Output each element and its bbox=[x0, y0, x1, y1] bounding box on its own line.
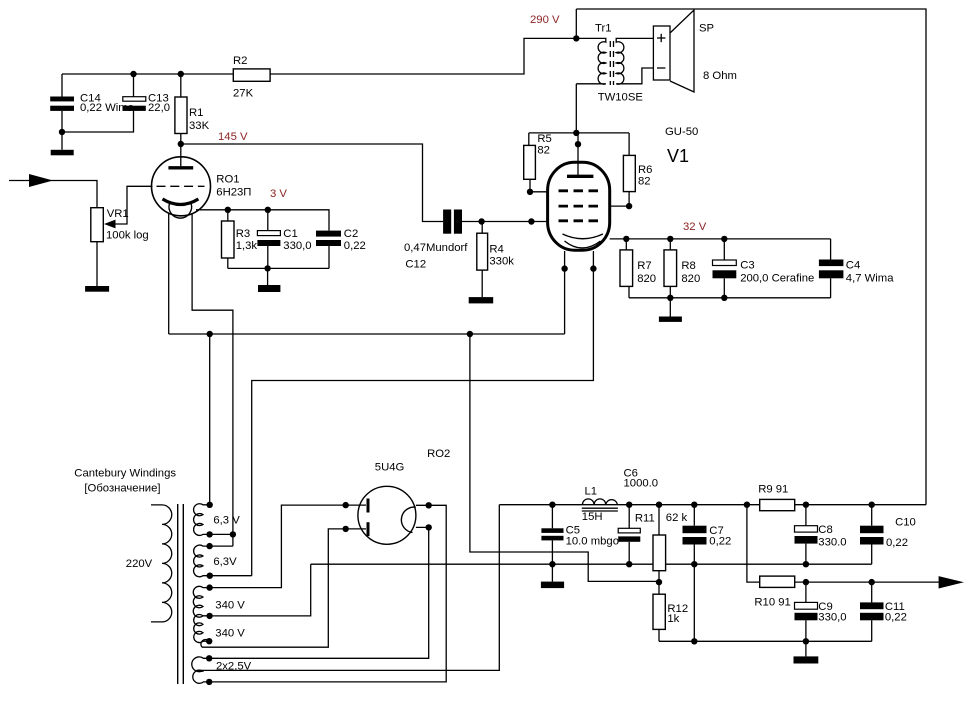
wire R8 top lead bbox=[669, 239, 671, 250]
svg-text:R3: R3 bbox=[236, 228, 250, 240]
svg-text:0,22 Wima: 0,22 Wima bbox=[80, 102, 135, 114]
node winding tap2 bbox=[206, 531, 212, 537]
wire bottom ground rail bbox=[659, 640, 872, 642]
svg-text:C2: C2 bbox=[344, 228, 358, 240]
svg-text:R11: R11 bbox=[635, 513, 655, 525]
svg-text:L1: L1 bbox=[585, 486, 598, 498]
wire R2 right to 290V node (up and over) bbox=[270, 38, 576, 74]
svg-text:820: 820 bbox=[681, 273, 700, 285]
transformer Tr1 core bbox=[610, 41, 613, 85]
node GU-50 cathode pin left bbox=[561, 265, 567, 271]
node R6 bottom bbox=[626, 203, 632, 209]
capacitor C5 bbox=[541, 528, 563, 540]
node winding tap7 bbox=[206, 638, 212, 644]
wire R5 bottom to GU-50 g2 bbox=[530, 179, 548, 192]
wire ground stem below C1 bbox=[267, 268, 269, 285]
wire RO1 cathode row to R3 C1 C2 bbox=[196, 210, 329, 231]
ground below R8 bbox=[659, 317, 682, 322]
node C9 bottom ground bbox=[803, 638, 809, 644]
node R11 R12 junction bbox=[656, 579, 662, 585]
svg-text:8 Ohm: 8 Ohm bbox=[703, 70, 737, 82]
wire R6 top lead bbox=[628, 133, 630, 156]
capacitor C4 bbox=[819, 260, 844, 279]
wire C11 bottom lead bbox=[871, 620, 873, 641]
resistor R12 bbox=[653, 594, 665, 629]
svg-text:C1: C1 bbox=[283, 228, 297, 240]
node C3 bottom bbox=[721, 295, 727, 301]
svg-text:0,22: 0,22 bbox=[886, 537, 908, 549]
wire C3 top lead bbox=[723, 239, 725, 260]
svg-text:Cantebury Windings: Cantebury Windings bbox=[74, 468, 176, 480]
node R11 top bbox=[656, 502, 662, 508]
node GU-50 anode lead bbox=[575, 141, 581, 147]
svg-text:R9 91: R9 91 bbox=[758, 484, 788, 496]
wire 6,3V tap4 to GU-50 heater return bbox=[210, 575, 252, 577]
wire ground stem below R8 bbox=[669, 298, 671, 317]
wire 2x2,5V bottom tap to 5U4G filament pin2 bbox=[209, 505, 446, 682]
pentode GU-50 envelope bbox=[548, 162, 610, 250]
wire C5 bottom lead bbox=[551, 540, 553, 564]
wire input line bbox=[9, 181, 97, 208]
wire RO1 heater lead left bbox=[168, 213, 170, 334]
wire C6 top lead bbox=[628, 505, 630, 529]
wire top bus to right edge and down to B+ rail bbox=[576, 9, 926, 505]
node winding tap5 bbox=[206, 584, 212, 590]
RO1 cathode arc bbox=[163, 199, 199, 205]
svg-text:2x2,5V: 2x2,5V bbox=[216, 660, 252, 672]
svg-text:62 k: 62 k bbox=[666, 512, 688, 524]
power transformer core bbox=[178, 504, 184, 684]
svg-text:6Н23П: 6Н23П bbox=[216, 187, 251, 199]
wire R3 top lead bbox=[227, 210, 229, 221]
ground below C5 bbox=[541, 582, 564, 589]
capacitor C3 bbox=[713, 260, 737, 278]
svg-text:RO2: RO2 bbox=[427, 448, 450, 460]
wire heater rail to R11 R12 junction bbox=[470, 334, 659, 581]
resistor R8 bbox=[664, 250, 677, 287]
GU-50 grid2 dashed bbox=[559, 189, 599, 192]
wire R3 bottom lead bbox=[227, 258, 229, 268]
RO1 grid dashed line bbox=[157, 185, 205, 187]
wire heater rail bbox=[169, 333, 565, 335]
5U4G plate2 bbox=[367, 522, 370, 536]
svg-text:3 V: 3 V bbox=[270, 188, 287, 200]
inductor L1 bbox=[582, 499, 618, 511]
GU-50 grid1 dashed bbox=[559, 219, 599, 222]
resistor R1 bbox=[175, 97, 187, 134]
wire C11 top lead bbox=[871, 582, 873, 602]
svg-text:330k: 330k bbox=[489, 256, 514, 268]
wire C10 top lead bbox=[871, 505, 873, 526]
node C1 bottom ground bbox=[264, 265, 270, 271]
wire 2x2,5V top tap to 5U4G filament pin1 bbox=[209, 527, 429, 658]
svg-text:145 V: 145 V bbox=[218, 131, 248, 143]
wire 290V node up to top bus bbox=[575, 9, 577, 38]
wire 6,3V tap3 line bbox=[210, 545, 233, 547]
input arrow bbox=[29, 174, 53, 187]
node winding center tap bbox=[206, 613, 212, 619]
wire C14 bottom lead to ground bbox=[61, 111, 63, 150]
speaker minus sign bbox=[657, 67, 665, 69]
wire R4 top lead bbox=[481, 222, 483, 234]
node R5 bottom bbox=[527, 189, 533, 195]
node C8 top bbox=[803, 502, 809, 508]
secondary winding 6,3V no2 bbox=[194, 545, 210, 577]
wire GU-50 cathode lead left to heater rail bbox=[564, 251, 566, 334]
svg-text:0,22: 0,22 bbox=[709, 536, 731, 548]
node heater rail elevation tap bbox=[467, 331, 473, 337]
potentiometer VR1 body bbox=[91, 208, 104, 242]
svg-text:6,3V: 6,3V bbox=[213, 556, 237, 568]
svg-text:220V: 220V bbox=[126, 558, 153, 570]
svg-text:C10: C10 bbox=[895, 517, 916, 529]
wire ground stem below C9 bbox=[805, 641, 807, 656]
power transformer primary winding bbox=[151, 505, 172, 622]
resistor R3 bbox=[222, 221, 235, 258]
svg-text:0,22: 0,22 bbox=[885, 612, 907, 624]
RO1 anode plate bbox=[168, 166, 193, 169]
wire C2 bottom lead bbox=[328, 246, 330, 268]
node C7 bottom rail bbox=[691, 638, 697, 644]
resistor R9 bbox=[760, 499, 795, 510]
wire R7 top lead bbox=[625, 239, 627, 250]
wire top rail from C14 top to R2 left bbox=[62, 73, 233, 75]
svg-text:RO1: RO1 bbox=[216, 173, 239, 185]
node C8 bottom bbox=[803, 561, 809, 567]
secondary winding 6,3V no1 bbox=[194, 504, 210, 536]
transformer Tr1 secondary winding bbox=[616, 38, 653, 84]
wire 32V rail bbox=[610, 238, 831, 240]
wire heater rail tap down to 6,3V winding top bbox=[209, 334, 211, 505]
capacitor C6 bbox=[618, 528, 640, 542]
GU-50 grid3 dashed bbox=[559, 205, 599, 208]
node R9 R10 left bbox=[744, 502, 750, 508]
svg-text:0,47Mundorf: 0,47Mundorf bbox=[404, 242, 468, 254]
svg-text:VR1: VR1 bbox=[107, 208, 129, 220]
resistor R4 bbox=[477, 233, 488, 270]
wire RO1 heater lead right with jog bbox=[192, 213, 233, 546]
node C6 bottom bbox=[626, 561, 632, 567]
wire R4 bottom lead to ground bbox=[481, 270, 483, 297]
svg-text:GU-50: GU-50 bbox=[665, 126, 698, 138]
capacitor C9 bbox=[795, 602, 818, 620]
wire 340V tap5 to 5U4G plate1 bbox=[210, 505, 366, 587]
wire C14 top lead bbox=[61, 74, 63, 97]
node 145V bbox=[178, 141, 184, 147]
capacitor C12 bbox=[443, 210, 462, 234]
resistor R10 bbox=[760, 576, 795, 587]
node C7 bottom bbox=[691, 561, 697, 567]
wire R12 bottom lead bbox=[658, 629, 660, 641]
ground below C9 bbox=[794, 656, 819, 663]
wire R8 bottom lead bbox=[669, 286, 671, 297]
svg-text:5U4G: 5U4G bbox=[375, 462, 405, 474]
wire Tr1 primary bottom to GU-50 anode node bbox=[575, 84, 577, 133]
5U4G filament arc bbox=[401, 507, 415, 532]
wire C1 top lead bbox=[267, 210, 269, 231]
svg-text:290 V: 290 V bbox=[530, 14, 560, 26]
wire VR1 bottom lead to ground bbox=[96, 242, 98, 286]
node winding tap3 bbox=[206, 543, 212, 549]
node winding tap9 bbox=[206, 679, 212, 685]
node R8 bottom ground bbox=[667, 295, 673, 301]
wire 340V tap7 to 5U4G plate2 bbox=[202, 529, 366, 647]
node 5U4G plate1 lead bbox=[343, 502, 349, 508]
wire ground rail bbox=[311, 563, 872, 565]
wire ground stem below C5 bbox=[551, 564, 553, 581]
svg-text:32 V: 32 V bbox=[683, 221, 707, 233]
svg-text:10.0 mbgo: 10.0 mbgo bbox=[566, 536, 619, 548]
wire C8 top lead bbox=[805, 505, 807, 526]
svg-text:1000.0: 1000.0 bbox=[624, 478, 659, 490]
wire C9 bottom lead bbox=[805, 620, 807, 641]
wire C6 bottom lead bbox=[628, 542, 630, 564]
wire GU-50 screen rail R5 R6 bbox=[529, 132, 629, 134]
wire GU-50 anode lead bbox=[577, 133, 579, 175]
resistor R2 bbox=[233, 69, 270, 81]
wire R11 bottom lead bbox=[658, 571, 660, 582]
node C14 C13 bottom bbox=[59, 129, 65, 135]
svg-text:R10 91: R10 91 bbox=[754, 596, 790, 608]
node C13 top bbox=[130, 71, 136, 77]
node GU-50 cathode pin right bbox=[590, 265, 596, 271]
wire GU-50 cathode lead right down to heater return bbox=[252, 251, 594, 576]
wire R7 bottom lead bbox=[628, 286, 630, 297]
svg-text:V1: V1 bbox=[667, 146, 689, 166]
svg-text:R1: R1 bbox=[189, 107, 203, 119]
ground below VR1 bbox=[85, 286, 109, 292]
wire B+ rail bbox=[499, 504, 926, 506]
resistor R7 bbox=[620, 250, 633, 287]
ground below R4 bbox=[469, 297, 494, 303]
svg-text:TW10SE: TW10SE bbox=[598, 92, 644, 104]
secondary winding 340V no1 bbox=[193, 586, 209, 617]
wire R12 top lead bbox=[658, 582, 660, 594]
wire C4 top lead bbox=[830, 239, 832, 260]
wire C3 bottom lead bbox=[723, 278, 725, 298]
wire C7 top lead bbox=[693, 505, 695, 526]
node heater rail tap1 bbox=[207, 331, 213, 337]
capacitor C8 bbox=[795, 526, 818, 544]
wire C10 bottom lead bbox=[871, 545, 873, 565]
svg-text:1k: 1k bbox=[667, 613, 679, 625]
secondary winding 340V no2 bbox=[194, 615, 210, 648]
node C5 bottom bbox=[549, 561, 555, 567]
node C10 top bbox=[869, 502, 875, 508]
ground below C14 bbox=[51, 150, 74, 156]
VR1 wiper arrow bbox=[104, 220, 116, 229]
node C7 top bbox=[691, 502, 697, 508]
RO1 heater arc bbox=[169, 203, 192, 218]
svg-text:330.0: 330.0 bbox=[818, 536, 846, 548]
capacitor C7 bbox=[683, 526, 707, 545]
speaker SP terminal box bbox=[653, 26, 670, 80]
capacitor C1 bbox=[257, 231, 280, 246]
transformer Tr1 primary winding bbox=[576, 38, 606, 84]
wire output row to arrow bbox=[795, 581, 940, 583]
rectifier 5U4G envelope bbox=[358, 486, 416, 544]
node C11 top output bbox=[869, 579, 875, 585]
svg-text:R2: R2 bbox=[233, 55, 247, 67]
node 5U4G filament pin2 bbox=[426, 524, 432, 530]
capacitor C10 bbox=[860, 526, 884, 545]
node R3 top bbox=[225, 207, 231, 213]
svg-text:C8: C8 bbox=[818, 524, 832, 536]
wire 6,3V tap2 to heater jog bbox=[210, 533, 233, 535]
wire C1 bottom lead bbox=[267, 246, 269, 268]
svg-text:340 V: 340 V bbox=[215, 599, 245, 611]
wire R11 top lead bbox=[658, 505, 660, 535]
svg-text:6,3 V: 6,3 V bbox=[213, 515, 240, 527]
GU-50 cathode arc bbox=[563, 234, 603, 239]
node winding tap4 bbox=[207, 573, 213, 579]
wire C8 bottom lead bbox=[805, 544, 807, 565]
secondary winding 2x2,5V bbox=[192, 657, 209, 683]
node heater jog junction bbox=[230, 531, 236, 537]
svg-text:0,22: 0,22 bbox=[344, 240, 366, 252]
svg-text:R6: R6 bbox=[638, 164, 652, 176]
wire cathode network bottom rail bbox=[228, 267, 329, 269]
output arrow bbox=[939, 576, 964, 588]
wire 340V center tap to ground rail bbox=[210, 564, 311, 616]
capacitor C2 bbox=[316, 231, 341, 246]
svg-text:R5: R5 bbox=[537, 133, 551, 145]
wire C5 top lead bbox=[551, 505, 553, 529]
resistor R11 bbox=[653, 535, 666, 571]
node winding tap8 bbox=[206, 655, 212, 661]
capacitor C11 bbox=[860, 602, 884, 620]
svg-text:C3: C3 bbox=[740, 260, 754, 272]
svg-text:82: 82 bbox=[537, 145, 550, 157]
svg-text:4,7 Wima: 4,7 Wima bbox=[846, 273, 894, 285]
svg-text:82: 82 bbox=[638, 175, 651, 187]
wire C9 top lead bbox=[805, 582, 807, 602]
node C1 top bbox=[265, 207, 271, 213]
resistor R6 bbox=[623, 155, 635, 191]
svg-text:1,3k: 1,3k bbox=[236, 240, 258, 252]
svg-text:27K: 27K bbox=[233, 88, 254, 100]
svg-text:Tr1: Tr1 bbox=[595, 23, 612, 35]
node 290V bbox=[573, 35, 579, 41]
wire C4 bottom lead bbox=[830, 278, 832, 298]
svg-text:C4: C4 bbox=[846, 260, 860, 272]
wire R5 top lead bbox=[528, 133, 530, 146]
capacitor C13 bbox=[123, 97, 146, 111]
svg-text:R4: R4 bbox=[489, 244, 503, 256]
5U4G plate1 bbox=[367, 499, 370, 513]
node 5U4G filament pin1 bbox=[426, 502, 432, 508]
GU-50 anode plate bbox=[567, 175, 593, 178]
wire C13 top lead bbox=[133, 74, 135, 97]
wire R6 bottom to GU-50 g3 bbox=[610, 192, 629, 207]
node R1 top bbox=[178, 71, 184, 77]
svg-text:15H: 15H bbox=[582, 511, 603, 523]
svg-text:100k log: 100k log bbox=[106, 229, 149, 241]
svg-text:33K: 33K bbox=[189, 120, 210, 132]
wire C12 right to GU-50 grid1 bbox=[462, 221, 548, 223]
svg-text:[Обозначение]: [Обозначение] bbox=[84, 483, 160, 495]
node C6 top bbox=[626, 502, 632, 508]
capacitor C14 bbox=[50, 97, 74, 111]
GU-50 heater arc bbox=[565, 241, 601, 248]
wire 2x2,5V center tap to B+ takeoff bbox=[196, 505, 499, 671]
ground below C1 bbox=[258, 285, 280, 292]
svg-text:340 V: 340 V bbox=[215, 628, 245, 640]
node C5 top bbox=[549, 502, 555, 508]
wire VR1 wiper to RO1 grid bbox=[115, 186, 153, 224]
node 5U4G plate2 lead bbox=[343, 526, 349, 532]
resistor R5 bbox=[524, 145, 536, 179]
wire R9 R10 left junction bbox=[747, 505, 760, 582]
wire C7 bottom lead down to bottom rail bbox=[693, 545, 695, 642]
wire R1 top lead bbox=[180, 74, 182, 97]
node R7 top bbox=[623, 236, 629, 242]
node R8 top bbox=[667, 236, 673, 242]
svg-text:820: 820 bbox=[637, 273, 656, 285]
speaker horn bbox=[670, 10, 694, 92]
node grid1 wire bbox=[528, 218, 534, 224]
node C3 top bbox=[721, 236, 727, 242]
triode RO1 envelope bbox=[152, 157, 211, 216]
svg-text:R8: R8 bbox=[681, 260, 695, 272]
node C9 top output bbox=[803, 579, 809, 585]
svg-text:22,0: 22,0 bbox=[148, 102, 170, 114]
svg-text:SP: SP bbox=[699, 23, 714, 35]
svg-text:C12: C12 bbox=[405, 258, 426, 270]
node GU-50 anode top bbox=[573, 130, 579, 136]
wire R1 bottom lead to RO1 anode bbox=[180, 134, 182, 168]
svg-text:200,0 Cerafine: 200,0 Cerafine bbox=[740, 273, 814, 285]
speaker plus sign bbox=[657, 34, 665, 42]
svg-text:330,0: 330,0 bbox=[818, 612, 846, 624]
wire cathode block bottom rail bbox=[629, 297, 831, 299]
svg-text:R7: R7 bbox=[637, 260, 651, 272]
svg-text:330,0: 330,0 bbox=[283, 240, 311, 252]
node R4 top bbox=[478, 218, 484, 224]
wire C13 bottom lead to C14 bottom node bbox=[62, 111, 134, 132]
node winding tap1 bbox=[207, 502, 213, 508]
wire 145V rail to C12 bbox=[181, 144, 443, 222]
